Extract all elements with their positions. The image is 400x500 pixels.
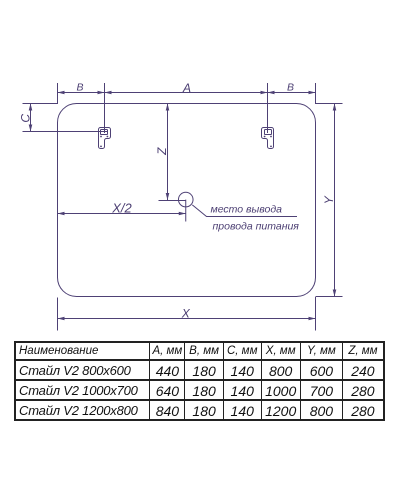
svg-text:A: A	[182, 81, 191, 95]
svg-text:место вывода: место вывода	[211, 204, 283, 216]
svg-text:X/2: X/2	[111, 201, 132, 216]
svg-text:B: B	[76, 82, 83, 94]
svg-text:X: X	[181, 307, 191, 321]
svg-text:B: B	[287, 82, 294, 94]
svg-text:Y: Y	[322, 195, 336, 204]
svg-text:провода питания: провода питания	[213, 221, 300, 233]
svg-text:Z: Z	[155, 147, 169, 156]
svg-text:C: C	[19, 114, 33, 123]
